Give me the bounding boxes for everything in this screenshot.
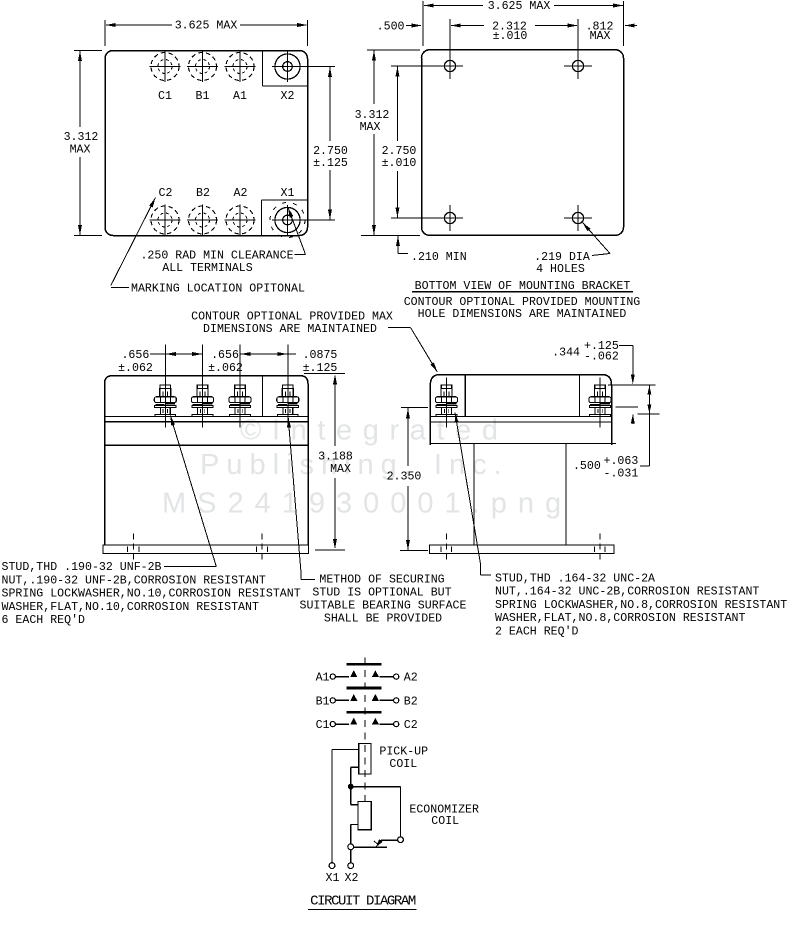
- terminal block notch X1: [262, 200, 308, 236]
- mounting bracket foot (front view): [103, 545, 309, 554]
- svg-text:±.062: ±.062: [118, 362, 153, 375]
- svg-text:SPRING LOCKWASHER,NO.10,CORROS: SPRING LOCKWASHER,NO.10,CORROSION RESIST…: [2, 588, 301, 601]
- svg-text:MAX: MAX: [330, 463, 351, 476]
- contact bridge bar C: [347, 711, 382, 714]
- svg-text:SPRING LOCKWASHER,NO.8,CORROSI: SPRING LOCKWASHER,NO.8,CORROSION RESISTA…: [495, 599, 787, 612]
- svg-text:B2: B2: [196, 187, 210, 200]
- terminal A2 (phantom): [225, 205, 256, 236]
- extension line: washer mid (side): [616, 406, 638, 408]
- svg-text:MS241930001.png: MS241930001.png: [162, 488, 572, 520]
- svg-text:SHALL BE PROVIDED: SHALL BE PROVIDED: [324, 613, 442, 626]
- svg-text:±.125: ±.125: [313, 157, 348, 170]
- front view divider at X terminals: [262, 376, 264, 417]
- svg-text:A1: A1: [316, 672, 330, 685]
- wire A2: [380, 676, 394, 678]
- mechanical linkage (dashed): [364, 658, 366, 802]
- mounting hole bottom right: [564, 205, 592, 231]
- svg-text:C2: C2: [404, 719, 418, 732]
- dimension .210 MIN: [396, 236, 467, 264]
- svg-text:3.625 MAX: 3.625 MAX: [488, 0, 551, 13]
- svg-text:±.010: ±.010: [493, 30, 528, 43]
- leader: stud hardware note (side): [455, 413, 491, 576]
- svg-text:3.625 MAX: 3.625 MAX: [175, 20, 238, 33]
- terminal stud C (front): [154, 345, 176, 428]
- wire C1: [336, 723, 349, 725]
- dimension 2.312 +/-.010 (hole spacing): [451, 20, 578, 43]
- label economizer coil: [409, 804, 479, 828]
- leader: .219 DIA 4 holes: [583, 223, 611, 256]
- terminal B2 (phantom): [187, 205, 218, 236]
- wire junction to economizer right: [351, 787, 401, 837]
- front view horizontal line (plate): [105, 421, 309, 423]
- svg-text:BOTTOM VIEW OF MOUNTING BRACKE: BOTTOM VIEW OF MOUNTING BRACKET: [415, 280, 631, 293]
- relay top view outline: [105, 51, 308, 236]
- svg-text:2.350: 2.350: [387, 471, 422, 484]
- contact bridge bar B: [347, 687, 382, 690]
- contact A2: [372, 670, 379, 677]
- wire X1 from pick-up coil: [332, 749, 359, 862]
- terminal stud X (front): [277, 345, 299, 428]
- svg-text:WASHER,FLAT,NO.8,CORROSION RES: WASHER,FLAT,NO.8,CORROSION RESISTANT: [495, 612, 746, 625]
- note: stud hardware (side): [495, 572, 787, 638]
- svg-text:MARKING LOCATION OPITONAL: MARKING LOCATION OPITONAL: [131, 282, 305, 295]
- svg-text:STUD IS OPTIONAL BUT: STUD IS OPTIONAL BUT: [312, 586, 451, 599]
- mounting bracket outline: [422, 50, 624, 236]
- dimension .0875 (stud to X stud): [288, 349, 338, 375]
- terminal X1 (stud end view): [272, 205, 335, 236]
- svg-text:3.312: 3.312: [355, 109, 390, 122]
- pick-up coil: [359, 743, 371, 774]
- svg-text:2.750: 2.750: [313, 145, 348, 158]
- svg-text:MAX: MAX: [360, 121, 381, 134]
- svg-text:X2: X2: [345, 872, 359, 885]
- contact B1: [350, 694, 357, 701]
- svg-text:.500: .500: [573, 460, 601, 473]
- note: stud hardware (front): [2, 561, 301, 627]
- wire A1: [336, 676, 349, 678]
- dimension 3.625 MAX (bracket width): [423, 0, 624, 46]
- svg-text:STUD,THD .164-32 UNC-2A: STUD,THD .164-32 UNC-2A: [495, 572, 655, 585]
- note: contour optional (max dimensions): [191, 311, 393, 336]
- terminal X2 (stud end view): [272, 52, 335, 83]
- svg-text:6 EACH REQ'D: 6 EACH REQ'D: [2, 614, 86, 627]
- svg-text:©Integrated: ©Integrated: [240, 415, 509, 447]
- svg-text:.344: .344: [552, 347, 580, 360]
- svg-text:PICK-UP: PICK-UP: [379, 746, 428, 759]
- terminal C1 (phantom): [150, 51, 181, 83]
- leader: clearance note to X1: [288, 208, 306, 255]
- economizer coil: [358, 802, 371, 830]
- economizer cut-out contact terminal: [398, 837, 404, 843]
- contact C2: [372, 718, 379, 725]
- extension line: washer top (side): [638, 413, 660, 415]
- terminal stud B (front): [192, 345, 214, 428]
- dimension 3.625 MAX (top view width): [105, 20, 308, 47]
- base centerline right (side view): [599, 534, 601, 564]
- dimension 2.350 (side view height): [387, 408, 428, 551]
- svg-text:MAX: MAX: [590, 30, 611, 43]
- svg-text:SUITABLE BEARING SURFACE: SUITABLE BEARING SURFACE: [300, 600, 467, 613]
- contact A1: [350, 670, 357, 677]
- node X2 wire: [348, 844, 354, 850]
- wire pick-up coil to junction: [351, 767, 359, 786]
- cut-out contact arm: [374, 839, 398, 847]
- leader: contour note to side view: [388, 328, 437, 373]
- svg-text:NUT,.164-32 UNC-2B,CORROSION R: NUT,.164-32 UNC-2B,CORROSION RESISTANT: [495, 586, 759, 599]
- front view horizontal line (stud base): [105, 416, 309, 418]
- terminal stud X1 (side): [436, 378, 458, 428]
- svg-text:A1: A1: [233, 90, 247, 103]
- svg-text:C1: C1: [158, 90, 172, 103]
- dimension .500 +.063/-.031: [573, 414, 650, 481]
- dimension .812 MAX (hole to edge): [586, 20, 637, 43]
- contact B1 terminal: [330, 698, 335, 703]
- svg-text:X1: X1: [281, 187, 295, 200]
- svg-text:WASHER,FLAT,NO.10,CORROSION RE: WASHER,FLAT,NO.10,CORROSION RESISTANT: [2, 601, 259, 614]
- svg-text:HOLE DIMENSIONS ARE MAINTAINED: HOLE DIMENSIONS ARE MAINTAINED: [418, 308, 627, 321]
- svg-text:MAX: MAX: [70, 144, 91, 157]
- terminal block notch X2: [263, 51, 308, 87]
- contact A2 terminal: [394, 674, 399, 679]
- bracket base flange (side view): [430, 545, 615, 554]
- dimension 3.312 MAX (bracket height): [355, 50, 420, 235]
- contact B2: [372, 694, 379, 701]
- svg-text:3.312: 3.312: [64, 131, 99, 144]
- side view horizontal line (plate): [430, 421, 611, 423]
- svg-text:.656: .656: [211, 349, 239, 362]
- svg-text:DIMENSIONS ARE MAINTAINED: DIMENSIONS ARE MAINTAINED: [203, 323, 377, 336]
- side view inner vertical left: [464, 375, 466, 417]
- dimension 3.312 MAX (top view height): [64, 51, 102, 236]
- foot centerline right: [261, 534, 263, 564]
- junction node: [348, 784, 354, 790]
- svg-text:STUD,THD .190-32 UNF-2B: STUD,THD .190-32 UNF-2B: [2, 561, 162, 574]
- svg-text:3.188: 3.188: [318, 451, 353, 464]
- terminal X1: [329, 863, 335, 869]
- svg-text:NUT,.190-32 UNF-2B,CORROSION R: NUT,.190-32 UNF-2B,CORROSION RESISTANT: [2, 574, 266, 587]
- side view inner vertical right: [579, 375, 581, 417]
- mounting hole top left: [391, 19, 463, 79]
- svg-text:-.031: -.031: [604, 467, 639, 480]
- wire B1: [336, 699, 349, 701]
- svg-text:C2: C2: [159, 187, 173, 200]
- side view horizontal line (stud base): [430, 416, 611, 418]
- terminal stud X2 (side): [589, 378, 611, 428]
- wire X2 to cut-out contact: [354, 846, 387, 848]
- terminal B1 (phantom): [187, 51, 218, 83]
- svg-text:-.062: -.062: [584, 350, 619, 363]
- terminal X2: [348, 863, 354, 869]
- leader: marking location: [111, 198, 156, 288]
- dimension line stud stack (side): [647, 385, 651, 414]
- dimension 2.750 +/-.010 (hole vertical spacing): [382, 67, 417, 218]
- svg-text:A2: A2: [404, 672, 418, 685]
- mounting hole bottom left: [391, 205, 463, 231]
- relay side view outline: [430, 375, 611, 446]
- clearance circle around X1: [270, 203, 305, 238]
- svg-text:COIL: COIL: [431, 815, 459, 828]
- svg-text:COIL: COIL: [389, 758, 417, 771]
- side view horizontal line (bracket bottom): [430, 443, 616, 445]
- dimension .500 (edge to hole): [377, 20, 422, 33]
- contact C2 terminal: [394, 722, 399, 727]
- svg-text:A2: A2: [234, 187, 248, 200]
- terminal C2 (phantom): [150, 205, 181, 236]
- dimension 3.188 MAX (front view height): [304, 373, 353, 550]
- contact C1: [350, 718, 357, 725]
- svg-text:X1: X1: [326, 872, 340, 885]
- wire C2: [380, 723, 394, 725]
- svg-text:B2: B2: [404, 695, 418, 708]
- contact bridge bar A: [347, 663, 382, 666]
- svg-text:4 HOLES: 4 HOLES: [536, 263, 585, 276]
- svg-text:.210 MIN: .210 MIN: [411, 251, 467, 264]
- terminal A1 (phantom): [225, 51, 256, 83]
- contact C1 terminal: [330, 722, 335, 727]
- contact A1 terminal: [330, 674, 335, 679]
- svg-text:±.062: ±.062: [208, 362, 243, 375]
- wire B2: [380, 699, 394, 701]
- svg-text:.0875: .0875: [303, 349, 338, 362]
- leader: stud hardware note (front): [164, 416, 216, 567]
- wire junction to economizer coil: [351, 787, 358, 805]
- svg-text:.250 RAD MIN CLEARANCE: .250 RAD MIN CLEARANCE: [140, 250, 293, 263]
- svg-text:2.750: 2.750: [382, 145, 417, 158]
- svg-text:B1: B1: [196, 90, 210, 103]
- contact B2 terminal: [394, 698, 399, 703]
- base centerline left (side view): [445, 534, 447, 564]
- terminal stud A (front): [229, 345, 251, 428]
- wire to X2 terminal: [350, 850, 352, 863]
- svg-text:METHOD OF SECURING: METHOD OF SECURING: [319, 573, 444, 586]
- dimension .344 +.125/-.062: [552, 340, 635, 424]
- svg-text:X2: X2: [281, 90, 295, 103]
- foot centerline left: [132, 534, 134, 564]
- dimension .656 first (stud spacing): [118, 349, 202, 375]
- label pick-up coil: [379, 746, 428, 772]
- svg-text:.656: .656: [121, 349, 149, 362]
- dimension 2.750 +/-.125 (terminal spacing): [313, 67, 348, 220]
- svg-text:ALL TERMINALS: ALL TERMINALS: [162, 262, 252, 275]
- extension line: stud top (side): [608, 384, 655, 386]
- svg-text:C1: C1: [316, 719, 330, 732]
- svg-text:CONTOUR OPTIONAL PROVIDED MAX: CONTOUR OPTIONAL PROVIDED MAX: [191, 311, 393, 324]
- leader: method of securing: [287, 418, 315, 580]
- svg-text:±.010: ±.010: [382, 157, 417, 170]
- mounting hole top right: [564, 19, 592, 79]
- note: method of securing: [300, 573, 467, 625]
- svg-text:CIRCUIT DIAGRAM: CIRCUIT DIAGRAM: [310, 894, 416, 910]
- svg-text:B1: B1: [316, 695, 330, 708]
- dimension .656 second (stud spacing): [208, 349, 288, 375]
- relay front view outline: [105, 376, 309, 545]
- svg-text:.500: .500: [377, 20, 405, 33]
- wire economizer coil to X2: [351, 825, 358, 844]
- bracket pedestal (side view): [474, 444, 566, 546]
- svg-text:2 EACH REQ'D: 2 EACH REQ'D: [495, 626, 579, 639]
- svg-text:+.063: +.063: [604, 455, 639, 468]
- front view horizontal line (bracket bottom): [105, 444, 309, 446]
- title: circuit diagram: [308, 894, 416, 910]
